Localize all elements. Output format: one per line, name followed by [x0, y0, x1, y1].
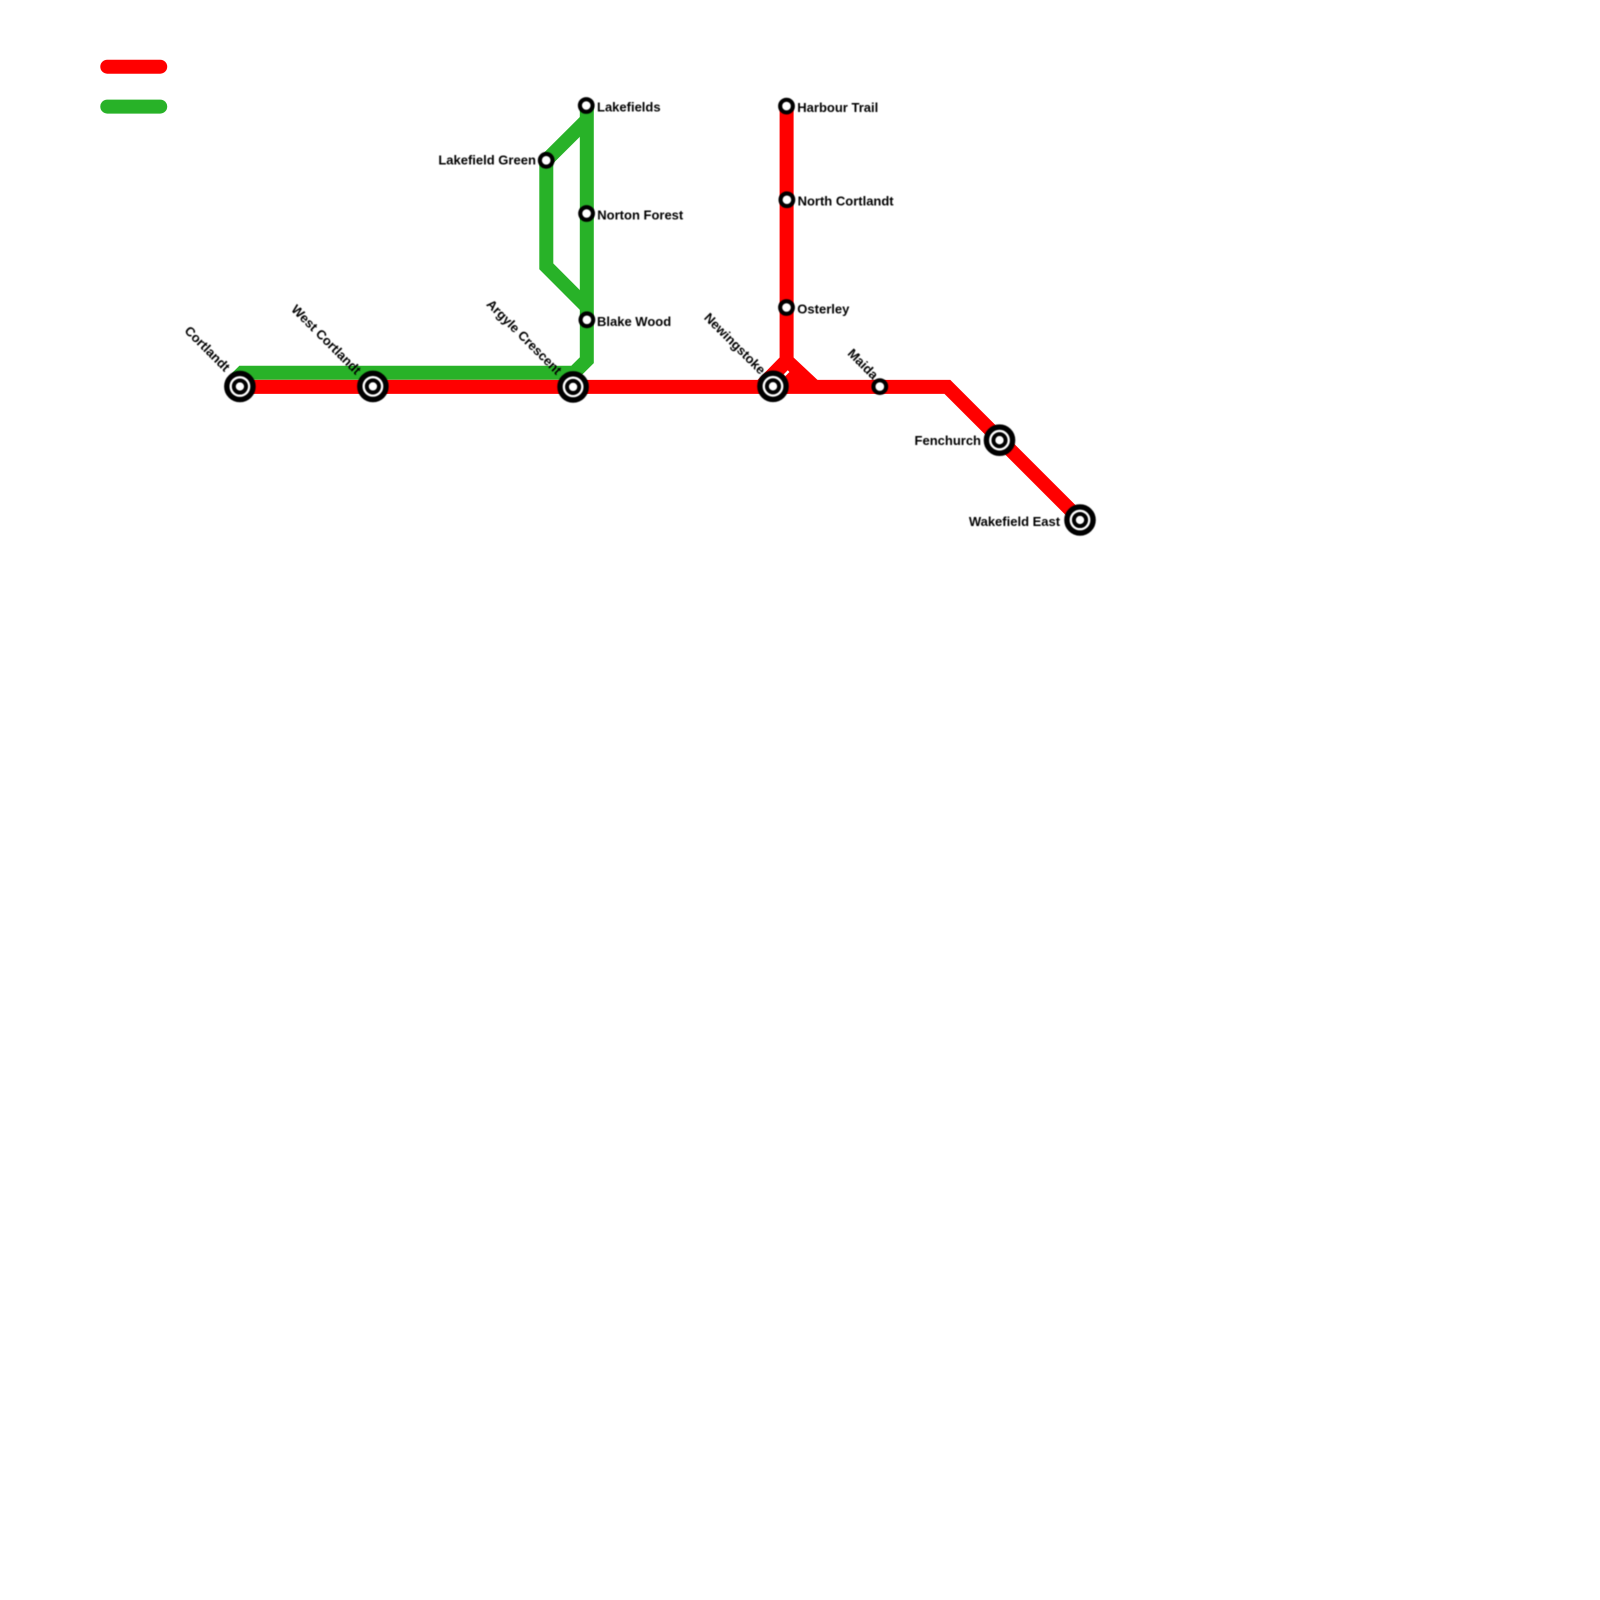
svg-text:Lakefields: Lakefields: [597, 99, 661, 114]
svg-text:North Cortlandt: North Cortlandt: [798, 194, 895, 209]
svg-text:Blake Wood: Blake Wood: [597, 314, 671, 329]
svg-text:Fenchurch: Fenchurch: [915, 433, 982, 448]
svg-text:Harbour Trail: Harbour Trail: [797, 100, 878, 115]
svg-text:Lakefield Green: Lakefield Green: [438, 153, 536, 168]
svg-text:Norton Forest: Norton Forest: [597, 207, 684, 222]
svg-text:Osterley: Osterley: [797, 301, 850, 316]
svg-text:Wakefield East: Wakefield East: [969, 514, 1061, 529]
